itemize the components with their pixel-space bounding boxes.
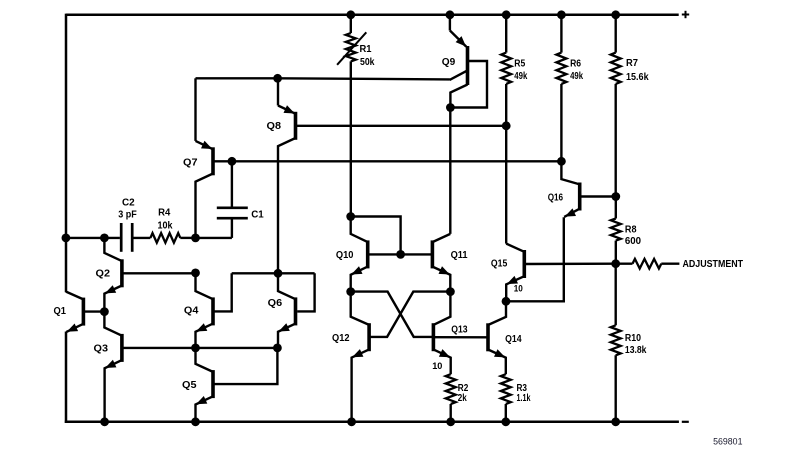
label Q9 <box>442 57 456 68</box>
wire Q13-Q14 base line <box>433 336 488 338</box>
label Q11 <box>451 250 468 261</box>
svg-text:R10: R10 <box>625 333 641 344</box>
svg-text:49k: 49k <box>514 71 527 82</box>
node R7 Q16 base <box>611 192 620 201</box>
node bottom rail R10 <box>611 417 620 426</box>
svg-text:Q13: Q13 <box>451 325 468 336</box>
wire collector-base link <box>351 217 401 255</box>
node bottom rail Q12 <box>347 417 356 426</box>
label R5 <box>514 59 525 70</box>
wire Q9 collector to Q11 <box>449 108 451 234</box>
wire Q2 base line <box>122 272 196 274</box>
resistor R7 15.6k <box>611 15 621 197</box>
label R2 2k <box>458 393 467 404</box>
svg-text:Q3: Q3 <box>94 344 109 355</box>
wire Q8 base line <box>296 125 507 127</box>
svg-text:10: 10 <box>432 361 442 371</box>
label Q13 <box>451 325 468 336</box>
transistor Q11 <box>432 234 450 292</box>
label Q15 emitter 10 <box>514 284 523 294</box>
svg-text:600: 600 <box>625 236 641 247</box>
wire summing line left <box>66 237 120 239</box>
label Q6 <box>268 298 283 309</box>
negative terminal - <box>682 421 689 423</box>
transistor Q4 <box>196 273 214 348</box>
svg-text:Q14: Q14 <box>505 334 522 345</box>
wire Q14-Q15-Q16 emitter node link <box>506 217 564 301</box>
label Q2 <box>96 268 111 279</box>
wire C2 to R4 <box>134 237 151 239</box>
node Q6 emitter Q5 base <box>273 344 282 353</box>
capacitor C2 <box>121 223 132 252</box>
node bottom rail Q5 <box>191 417 200 426</box>
node top rail R7 <box>611 10 620 19</box>
node bottom rail R2 <box>446 417 455 426</box>
svg-text:ADJUSTMENT: ADJUSTMENT <box>683 259 744 270</box>
label Q16 <box>548 192 564 203</box>
label Q3 <box>94 344 109 355</box>
node adjustment <box>611 259 620 268</box>
svg-text:1.1k: 1.1k <box>517 393 531 404</box>
label Q8 <box>267 121 282 132</box>
label R4 10k <box>158 220 173 231</box>
label Q10 <box>336 250 354 261</box>
node R1 Q10 collector <box>346 212 355 221</box>
svg-text:Q9: Q9 <box>442 57 456 68</box>
label R7 15.6k <box>626 72 649 83</box>
label 50k <box>360 57 375 68</box>
node R5 Q8 base <box>502 121 511 130</box>
wire top positive rail <box>66 14 679 17</box>
label Q12 <box>332 333 350 344</box>
node top rail Q9 <box>446 10 455 19</box>
label Q14 <box>505 334 522 345</box>
svg-text:Q10: Q10 <box>336 250 354 261</box>
node Q10 Q11 base <box>396 250 405 259</box>
label R1 <box>360 44 372 55</box>
resistor R9 adjustment <box>616 259 680 269</box>
svg-text:3 pF: 3 pF <box>118 210 137 221</box>
wire Q3 base line <box>122 347 278 349</box>
label Q7 <box>183 158 198 169</box>
node cross couple left <box>346 287 355 296</box>
label R2 <box>458 383 469 394</box>
label R5 49k <box>514 71 527 82</box>
node Q8 emitter <box>273 74 282 83</box>
wire Q6 base loop <box>297 273 314 311</box>
node top rail R5 <box>502 10 511 19</box>
svg-text:R8: R8 <box>625 225 637 236</box>
wire left rail lower segment <box>65 332 68 424</box>
transistor Q14 <box>488 301 506 374</box>
node bottom rail Q3 <box>100 417 109 426</box>
resistor R1 50k (variable) <box>337 15 366 217</box>
label C1 <box>251 210 264 221</box>
wire Q5 base loop <box>213 348 277 384</box>
node Q9 collector-base <box>446 103 455 112</box>
svg-text:R1: R1 <box>360 44 372 55</box>
figure number 569801 <box>713 437 742 447</box>
capacitor C1 <box>217 161 248 238</box>
node Q2 collector <box>100 234 109 243</box>
svg-text:Q11: Q11 <box>451 250 468 261</box>
svg-text:C2: C2 <box>122 197 135 208</box>
transistor Q6 <box>278 273 296 348</box>
label R7 <box>626 58 638 69</box>
wire Q9 base line <box>278 78 450 79</box>
wire cross-couple right to Q12 base <box>371 292 451 337</box>
transistor Q13 <box>433 292 450 375</box>
transistor Q2 <box>104 238 122 312</box>
svg-text:10k: 10k <box>158 220 173 231</box>
svg-text:Q12: Q12 <box>332 333 350 344</box>
label R6 49k <box>570 71 583 82</box>
label Q4 <box>184 306 199 317</box>
wire Q1 base <box>83 310 104 312</box>
wire R4 to node <box>180 237 195 239</box>
svg-text:15.6k: 15.6k <box>626 72 649 83</box>
wire cross-couple left to Q13 base <box>351 292 434 337</box>
svg-text:Q4: Q4 <box>184 306 199 317</box>
svg-text:Q6: Q6 <box>268 298 283 309</box>
wire bottom negative rail <box>65 421 679 424</box>
transistor Q8 <box>278 78 296 273</box>
svg-text:10: 10 <box>514 284 523 294</box>
svg-text:Q5: Q5 <box>182 380 197 391</box>
label Q1 <box>54 306 67 317</box>
wire Q4 base loop <box>213 273 232 311</box>
node top rail R6 <box>557 10 566 19</box>
node top rail R1 <box>346 10 355 19</box>
resistor R10 13.8k <box>611 264 621 422</box>
positive terminal + <box>682 11 689 18</box>
svg-text:R7: R7 <box>626 58 638 69</box>
node C1 top <box>228 157 237 166</box>
label C2 <box>122 197 135 208</box>
node R6 Q16 collector <box>557 157 566 166</box>
svg-text:Q15: Q15 <box>491 259 508 270</box>
svg-text:Q1: Q1 <box>54 306 67 317</box>
resistor R4 10k <box>150 233 180 243</box>
svg-text:13.8k: 13.8k <box>625 345 647 356</box>
svg-text:2k: 2k <box>458 393 467 404</box>
node Q8 collector mirror <box>274 269 283 278</box>
resistor R2 2k <box>446 374 456 422</box>
transistor Q10 <box>351 217 368 292</box>
label R10 <box>625 333 641 344</box>
node Q2 base Q4 collector <box>191 269 200 278</box>
svg-text:50k: 50k <box>360 57 375 68</box>
svg-text:Q2: Q2 <box>96 268 111 279</box>
label R6 <box>570 59 581 70</box>
label R10 13.8k <box>625 345 647 356</box>
wire Q10-Q11 base line <box>368 253 433 255</box>
wire left rail upper segment <box>65 14 68 293</box>
wire Q16 base <box>580 195 616 197</box>
svg-text:Q8: Q8 <box>267 121 282 132</box>
label C2 3pF <box>118 210 137 221</box>
resistor R6 49k <box>556 15 566 162</box>
label R8 600 <box>625 236 641 247</box>
label R3 <box>517 383 528 394</box>
wire Q4-Q6 mirror line <box>232 272 315 274</box>
svg-text:R6: R6 <box>570 59 581 70</box>
svg-text:R5: R5 <box>514 59 525 70</box>
label Q5 <box>182 380 197 391</box>
label R4 <box>158 207 170 218</box>
transistor Q7 <box>196 78 214 238</box>
wire Q7 base line <box>213 160 561 162</box>
node left rail input <box>62 234 71 243</box>
resistor R8 600 <box>611 197 621 264</box>
label R8 <box>625 225 637 236</box>
node cross couple right <box>446 287 455 296</box>
wire Q7 emitter top link <box>196 77 278 79</box>
label R3 1.1k <box>517 393 531 404</box>
transistor Q5 <box>196 348 214 422</box>
svg-text:Q7: Q7 <box>183 158 198 169</box>
transistor Q9 <box>450 15 487 108</box>
wire node to C1 bottom <box>196 237 232 239</box>
svg-text:R4: R4 <box>158 207 170 218</box>
label Q15 <box>491 259 508 270</box>
resistor R5 49k <box>501 15 511 126</box>
transistor Q16 <box>561 161 579 217</box>
transistor Q3 <box>104 312 122 422</box>
svg-text:C1: C1 <box>251 210 264 221</box>
svg-text:Q16: Q16 <box>548 192 564 203</box>
wire Q15 base line <box>524 263 615 266</box>
node R4 C1 Q7 collector <box>191 234 200 243</box>
label Q13 emitter 10 <box>432 361 442 371</box>
node bottom rail R3 <box>501 417 510 426</box>
svg-text:569801: 569801 <box>713 437 742 447</box>
node Q4 emitter Q5 collector <box>191 344 200 353</box>
resistor R3 1.1k <box>501 374 511 422</box>
svg-text:49k: 49k <box>570 71 583 82</box>
transistor Q1 <box>66 292 83 332</box>
node Q1 base <box>100 307 109 316</box>
transistor Q12 <box>351 292 369 422</box>
transistor Q15 <box>506 126 524 301</box>
label ADJUSTMENT <box>683 259 744 270</box>
node Q14 collector Q15 emitter <box>502 297 511 306</box>
